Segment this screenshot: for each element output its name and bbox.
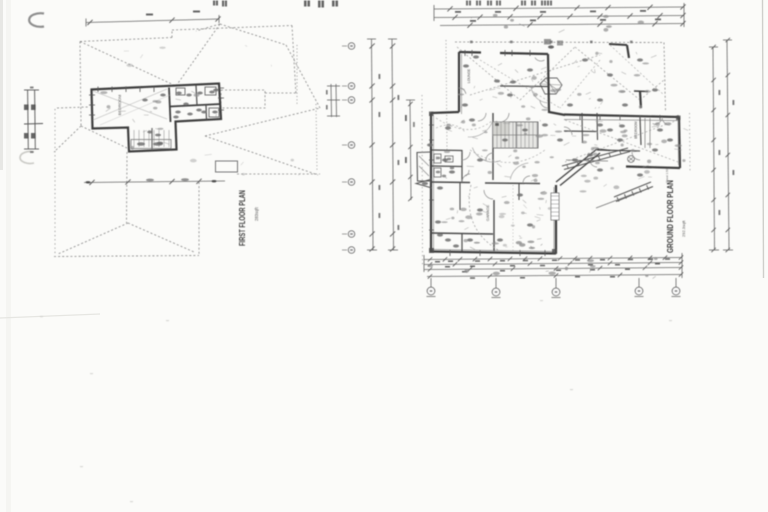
roof hip diagonals	[80, 42, 176, 87]
setback centreline to left dim chain	[57, 107, 88, 108]
fixtures in bath / ensuite	[176, 88, 185, 95]
right dimension chains of ground floor	[713, 47, 715, 250]
hall partition	[459, 183, 461, 210]
faint specks lower page	[90, 373, 93, 374]
ceiling fan circle	[628, 156, 635, 163]
WC / bath fixtures upper-left	[434, 154, 441, 163]
svg-text:BEDROOM: BEDROOM	[634, 121, 638, 139]
bottom dimension line	[84, 181, 225, 183]
chimney outline	[216, 161, 238, 172]
lower roof edges	[126, 152, 129, 223]
dashed ceiling X in wing bedroom	[565, 120, 678, 162]
dotted projection right of wing	[689, 113, 692, 173]
porch bump left	[417, 152, 431, 181]
grid bubbles below ground floor	[430, 278, 432, 287]
stair block	[493, 122, 538, 148]
chimney / bbq above family room	[544, 39, 551, 45]
dashed curved ceiling lines in main band	[436, 118, 493, 130]
stair hatch in stem	[133, 130, 135, 147]
faint pencil line bottom-left	[0, 314, 100, 318]
first floor outer walls	[92, 84, 222, 152]
top dimension line	[86, 19, 219, 23]
svg-text:LOUNGE: LOUNGE	[467, 68, 471, 83]
svg-text:283sqft: 283sqft	[254, 206, 259, 221]
top dimension chain	[434, 7, 684, 9]
entry canopy point	[416, 179, 432, 188]
window ticks on outer walls	[429, 124, 434, 126]
left projection dotted line	[421, 95, 424, 265]
right wing walls	[564, 115, 679, 118]
wing interior partitions	[581, 113, 584, 143]
svg-text:292.3sqft: 292.3sqft	[681, 220, 686, 237]
scanner streaks	[6, 0, 11, 512]
interior partition	[196, 86, 197, 106]
svg-text:FIRST FLOOR PLAN: FIRST FLOOR PLAN	[237, 190, 247, 246]
garden stair (diagonal with rungs)	[614, 182, 651, 197]
left dimension chain of ground floor	[410, 100, 411, 200]
stem label box	[131, 140, 171, 149]
hole punch mark top-left	[29, 13, 44, 27]
svg-text:GROUND FLOOR PLAN: GROUND FLOOR PLAN	[666, 180, 675, 253]
internal stair diagonal in wing	[562, 148, 628, 166]
spa hexagon on deck	[540, 78, 562, 94]
garage door dashed curve	[469, 185, 498, 250]
right page edge line	[763, 0, 764, 278]
svg-text:BEDROOM: BEDROOM	[117, 95, 122, 116]
scan noise on first floor sheet	[176, 99, 181, 100]
cut-off dimension text at page top (right sheet)	[466, 1, 468, 6]
svg-text:Sheet 1:50: Sheet 1:50	[665, 168, 669, 183]
interior wall mid right section	[170, 104, 221, 107]
window ticks on walls	[97, 87, 99, 93]
left dimension chain	[27, 90, 30, 149]
balcony dashed rect right of building	[221, 90, 265, 108]
pyramid roof apex over two-storey section	[196, 24, 220, 31]
lower-right roof triangle (apex left)	[205, 108, 320, 136]
grid bubbles right of first floor	[342, 45, 347, 47]
interior wall between bedroom and bath	[169, 88, 171, 123]
deck edge post marks	[470, 41, 473, 44]
room label and fixture blobs	[463, 64, 469, 67]
roof valley dashes above deck	[457, 47, 520, 100]
ground floor outer walls	[430, 113, 432, 251]
interior walls	[492, 113, 494, 180]
patio sliding door strip	[551, 193, 559, 220]
hole punch mark mid-left	[20, 152, 34, 164]
right dimension chains	[372, 39, 374, 250]
cut-off title text at page top (left sheet)	[213, 1, 215, 6]
study wall bottom-left	[431, 233, 493, 234]
projection dotted line	[512, 185, 514, 251]
inner wall lines (double-leaf walls)	[433, 115, 435, 249]
dark corner accents	[429, 248, 434, 253]
roof outline (dashed)	[80, 38, 172, 42]
large door swing arcs	[472, 148, 500, 163]
stair label blobs	[155, 134, 161, 137]
wardrobe lines in wing	[644, 118, 646, 148]
scan noise across ground floor sheet	[504, 201, 510, 204]
door swing arcs	[484, 190, 493, 199]
dark wall stubs on deck right	[627, 45, 629, 58]
splayed wall with door (diagonal)	[556, 149, 597, 182]
deck dashed outline	[455, 41, 664, 44]
bottom dimension chains	[424, 258, 682, 260]
short dim chain near roof	[330, 84, 333, 117]
bottom hip	[58, 223, 128, 254]
ceiling cross diagonals in bedroom	[93, 91, 167, 119]
